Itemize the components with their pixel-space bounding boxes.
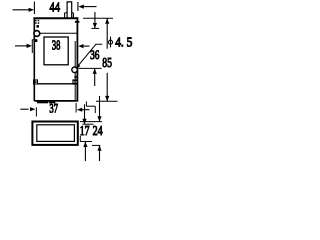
left ear extension bar [31, 39, 33, 53]
dim 36 vertical [94, 12, 96, 28]
part body outline (main front view) [33, 17, 78, 19]
terminal dots top-left (2x2) [34, 20, 39, 42]
lower view outer rect [32, 122, 77, 145]
dim 37 [20, 108, 28, 110]
dim 85 vertical [83, 17, 113, 19]
svg-text:85: 85 [102, 56, 112, 71]
inner rectangle [44, 37, 68, 65]
bottom ext lines [85, 101, 87, 106]
17 arrows [84, 104, 86, 124]
svg-text:38: 38 [52, 37, 61, 52]
hole circle bottom-right [72, 67, 78, 73]
hole circle top-left [34, 31, 40, 37]
svg-text:17: 17 [80, 123, 90, 138]
terminal dots top-right [75, 21, 80, 23]
phi4.5 leader to bottom-right hole [76, 44, 102, 68]
bolt left [33, 79, 38, 84]
mid body line [35, 83, 78, 85]
24 arrows [99, 96, 101, 122]
left mid arrow [15, 45, 28, 47]
pin dot below right hole [74, 76, 76, 78]
right mid arrow at edge [84, 45, 90, 47]
top tab [67, 2, 72, 19]
line from hole to right [40, 32, 77, 34]
dim 44: right arrow [81, 6, 97, 8]
feet below bottom [37, 102, 55, 104]
dim 44: left arrow [13, 9, 30, 11]
svg-text:37: 37 [49, 100, 58, 115]
svg-text:24: 24 [93, 123, 103, 138]
lower view inner rect [37, 125, 75, 142]
svg-text:4. 5: 4. 5 [115, 35, 132, 50]
tab collar [64, 13, 66, 18]
svg-text:44: 44 [50, 0, 61, 15]
bolt right [72, 79, 77, 84]
svg-text:36: 36 [90, 48, 100, 62]
